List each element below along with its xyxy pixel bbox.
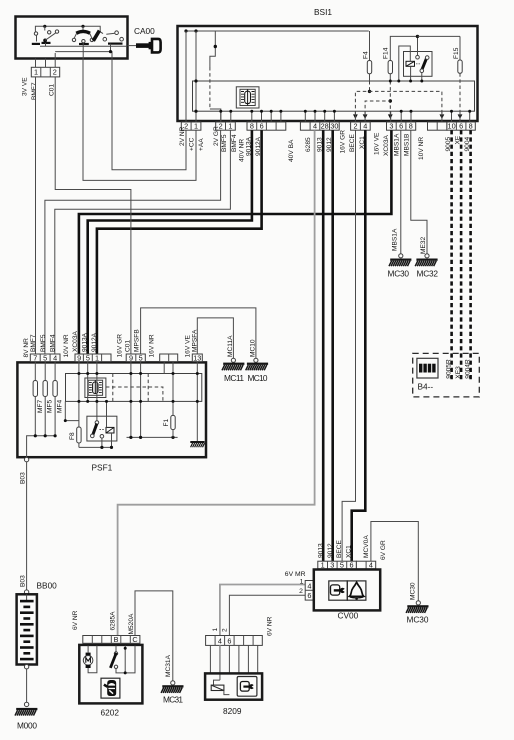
wire XC03A internal: [78, 362, 80, 427]
wire +AA internal: [195, 31, 197, 122]
svg-text:1: 1: [194, 122, 198, 131]
ground MC10: [246, 339, 268, 383]
relay in BSI1: [389, 35, 432, 83]
supply rail: [186, 30, 369, 32]
svg-text:5: 5: [340, 561, 344, 570]
svg-text:1: 1: [34, 68, 38, 77]
junction dot: [34, 434, 37, 437]
ground MC32: [415, 236, 438, 278]
node battery bottom: [24, 665, 28, 669]
wire 6285: [118, 130, 315, 635]
svg-text:MCV0A: MCV0A: [363, 535, 370, 558]
svg-text:F15: F15: [453, 47, 460, 59]
svg-text:MC31A: MC31A: [165, 654, 172, 677]
connector 10V NR: [428, 122, 447, 130]
svg-text:2: 2: [299, 588, 303, 595]
svg-text:13: 13: [193, 353, 201, 362]
connector 2V GR: [216, 122, 236, 131]
svg-text:5: 5: [43, 353, 47, 362]
svg-text:MC11A: MC11A: [227, 335, 234, 357]
svg-text:BECE: BECE: [336, 539, 343, 558]
svg-text:16V GR: 16V GR: [117, 334, 124, 358]
PSF1 top connector 16V VE: [192, 353, 202, 362]
wire +CC internal: [185, 31, 187, 122]
ground MC30 bottom: [406, 605, 429, 624]
svg-text:9004R: 9004R: [464, 359, 471, 379]
junction dot: [54, 434, 57, 437]
svg-text:XC03A: XC03A: [72, 331, 79, 352]
svg-text:1: 1: [228, 122, 232, 131]
svg-text:8: 8: [409, 122, 413, 131]
switch 2 contacts: [72, 26, 93, 58]
bell icon in CV00: [347, 581, 366, 600]
svg-text:MC11: MC11: [224, 373, 244, 383]
svg-text:ME32: ME32: [420, 236, 427, 254]
svg-text:6: 6: [260, 122, 264, 131]
svg-text:+CC: +CC: [188, 137, 195, 151]
wire BMF5: [45, 130, 221, 354]
svg-text:2: 2: [222, 628, 229, 632]
svg-text:9: 9: [129, 353, 133, 362]
svg-text:7: 7: [33, 353, 37, 362]
svg-text:PSF1: PSF1: [92, 463, 113, 473]
svg-text:4: 4: [313, 122, 317, 131]
internal wire H2: [55, 52, 112, 59]
svg-text:10V NR: 10V NR: [63, 334, 70, 357]
arrow blank pin: [440, 114, 445, 119]
ground MC11: [222, 335, 244, 383]
box 6202: [79, 645, 142, 704]
wire XC1: [352, 130, 366, 561]
svg-text:3: 3: [330, 561, 334, 570]
stub F8 feed: [65, 401, 79, 420]
svg-text:C01: C01: [49, 84, 56, 96]
svg-text:BMF5: BMF5: [221, 134, 228, 152]
wire 2 8209 to CV00: [229, 595, 305, 635]
fusebox icon in PSF1: [85, 378, 106, 398]
svg-text:4: 4: [363, 122, 367, 131]
svg-text:F4: F4: [362, 51, 369, 59]
svg-text:1: 1: [95, 353, 99, 362]
svg-text:B03: B03: [20, 575, 27, 587]
svg-text:30: 30: [330, 122, 338, 131]
junction dot: [214, 45, 217, 48]
svg-text:MF7: MF7: [37, 399, 44, 413]
actuator icon in 8209: [211, 680, 229, 695]
svg-text:BMF4: BMF4: [231, 134, 238, 152]
svg-text:6: 6: [349, 561, 353, 570]
connector 40V NR: [247, 122, 286, 131]
junction dot: [368, 90, 371, 93]
svg-text:+AA: +AA: [198, 138, 205, 151]
step wire with junction: [210, 31, 215, 67]
junction dot: [43, 25, 46, 28]
dashed net from F4: [369, 81, 371, 91]
node MC30: [416, 601, 420, 605]
fuse MF5: [43, 362, 54, 436]
inner equipment rect: [66, 374, 202, 402]
svg-text:2V GR: 2V GR: [213, 126, 220, 146]
svg-text:6: 6: [399, 122, 403, 131]
box 8209: [205, 673, 262, 699]
svg-text:6: 6: [459, 122, 463, 131]
switch 1 contacts: [32, 26, 59, 46]
hook to pin: [210, 109, 221, 122]
stubs 8209: [210, 645, 257, 673]
fuse MF4: [53, 362, 64, 436]
coil feed: [106, 401, 108, 427]
stub pin4 gray: [219, 645, 221, 680]
connector icon B4: [417, 358, 438, 378]
svg-text:4: 4: [369, 561, 373, 570]
arrow pin2: [353, 114, 358, 119]
svg-text:C: C: [132, 635, 137, 644]
svg-text:1: 1: [212, 628, 219, 632]
svg-text:M000: M000: [17, 721, 37, 731]
dashed wire F15 to pin6: [459, 73, 461, 114]
stub box to connector mid: [45, 59, 47, 68]
svg-text:6V MR: 6V MR: [285, 571, 306, 578]
svg-text:16V VE: 16V VE: [374, 132, 381, 155]
battery BB00: [17, 594, 37, 664]
left connector CV00: [305, 581, 313, 601]
wire 9012: [331, 130, 334, 561]
relay in PSF1: [87, 416, 117, 441]
switch in 6202: [110, 646, 135, 675]
wire MPSFB internal: [140, 362, 142, 438]
svg-text:MF4: MF4: [57, 399, 64, 413]
svg-text:2: 2: [353, 122, 357, 131]
svg-text:1: 1: [300, 578, 304, 585]
node battery top: [24, 590, 28, 594]
top connector 4 CV00: [356, 561, 375, 570]
connector 6202: [83, 635, 140, 644]
switch box CA00: [16, 17, 128, 59]
wire MBS1B ME32: [411, 130, 427, 254]
wire C01 internal: [130, 362, 132, 438]
svg-text:BSI1: BSI1: [314, 7, 332, 17]
svg-text:CV00: CV00: [338, 611, 359, 621]
node B03 at PSF1: [24, 457, 28, 461]
top bus wire inside CA00: [35, 26, 100, 32]
PSF1 top connector 10V: [75, 353, 111, 362]
fuse F4: [362, 31, 371, 81]
connector 16V GR: [351, 122, 371, 131]
arrow pin4: [363, 114, 368, 119]
svg-text:6V NR: 6V NR: [267, 616, 274, 636]
svg-text:2: 2: [53, 68, 57, 77]
wire 9013: [322, 130, 325, 561]
connector 40V BA: [300, 122, 339, 131]
motor M in 6202: [83, 646, 97, 673]
switch 3 contacts: [93, 31, 123, 52]
svg-text:CA00: CA00: [134, 26, 155, 36]
svg-text:9005R: 9005R: [445, 359, 452, 379]
box CV00: [314, 570, 380, 611]
PSF1 top connector 16V NR: [160, 354, 178, 362]
svg-text:28: 28: [321, 122, 329, 131]
internal ground in PSF1: [190, 441, 204, 447]
fuse F8: [69, 427, 81, 447]
svg-text:9012: 9012: [327, 543, 334, 558]
wire C01: [55, 77, 131, 354]
svg-text:BMF5: BMF5: [40, 334, 47, 352]
svg-text:6V NR: 6V NR: [72, 610, 79, 630]
svg-text:9013: 9013: [317, 543, 324, 558]
wire 9005 dashed: [450, 130, 453, 382]
key icon in CV00: [329, 581, 348, 600]
dashed vertical in PSF1: [112, 374, 114, 402]
svg-text:8209: 8209: [223, 706, 242, 716]
svg-text:MBS1A: MBS1A: [394, 133, 401, 156]
svg-text:BECE: BECE: [349, 133, 356, 152]
svg-text:B4--: B4--: [418, 382, 434, 392]
dashed wire down: [209, 67, 211, 109]
svg-text:4: 4: [218, 637, 222, 646]
wire XC03A: [79, 130, 392, 354]
wire MPSFA internal: [196, 362, 198, 441]
wire to M000: [26, 669, 28, 702]
box BSI1: [178, 26, 478, 121]
svg-text:XE3: XE3: [455, 366, 462, 379]
svg-text:MC32: MC32: [417, 269, 439, 279]
fuse F1: [163, 362, 175, 438]
fuse F14: [383, 36, 418, 81]
connector 8209: [206, 636, 263, 646]
junction dot: [44, 434, 47, 437]
junction dot: [389, 99, 392, 102]
wire M520A to MC31: [135, 591, 173, 681]
svg-text:8: 8: [250, 122, 254, 131]
svg-text:XC1: XC1: [346, 545, 353, 558]
junction dot: [109, 50, 112, 53]
svg-text:6202: 6202: [101, 708, 120, 718]
dashed vertical in PSF1: [147, 374, 149, 402]
stub box to connector pin1: [35, 59, 37, 68]
fuse F15: [453, 36, 462, 73]
PSF1 top connector 8V: [30, 353, 60, 362]
wire MBS1A: [400, 130, 402, 254]
node M000: [24, 702, 28, 706]
wire XE dashed: [460, 130, 463, 382]
arrow pin3: [388, 114, 393, 119]
svg-text:10V NR: 10V NR: [418, 137, 425, 160]
wire B03: [26, 462, 28, 590]
svg-text:1: 1: [321, 561, 325, 570]
svg-text:16V NR: 16V NR: [149, 334, 156, 357]
svg-text:5: 5: [139, 353, 143, 362]
ground M000: [15, 708, 37, 731]
svg-text:MC30: MC30: [388, 269, 410, 279]
svg-text:MC10: MC10: [249, 339, 256, 357]
svg-text:MC10: MC10: [248, 373, 268, 383]
ground MC31: [161, 685, 183, 704]
svg-text:6285A: 6285A: [110, 611, 117, 631]
bus B: [127, 436, 178, 438]
box PSF1: [17, 362, 206, 457]
wire MPSFA to MC11: [197, 318, 233, 358]
svg-text:40V BA: 40V BA: [288, 139, 295, 162]
svg-text:MBS1B: MBS1B: [404, 133, 411, 156]
junction dot: [194, 29, 197, 32]
PSF1 top connector 16V GR: [126, 353, 145, 362]
junction dots on BSI bottom edge: [219, 110, 471, 113]
junction dot: [81, 25, 84, 28]
stub blank pins: [163, 362, 165, 374]
svg-text:16V GR: 16V GR: [340, 130, 347, 154]
wire +AA: [83, 59, 196, 181]
svg-text:MC31: MC31: [163, 695, 183, 705]
box B4 dashed: [413, 353, 480, 397]
dashed to XC1 pin: [365, 101, 390, 115]
connector 9005: [447, 122, 475, 131]
rail to F15: [418, 35, 461, 37]
svg-text:6285: 6285: [305, 137, 312, 152]
wire BECE: [342, 130, 355, 561]
svg-text:BB00: BB00: [37, 581, 58, 591]
svg-text:B03: B03: [20, 472, 27, 484]
svg-text:9012A: 9012A: [91, 332, 98, 352]
svg-text:BMF4: BMF4: [50, 334, 57, 352]
wire 9013A internal: [87, 362, 89, 402]
junction dots: [77, 372, 80, 375]
svg-text:4: 4: [307, 581, 311, 590]
wire +CC: [112, 59, 186, 170]
svg-text:2V NR: 2V NR: [179, 126, 186, 146]
svg-text:MF5: MF5: [47, 399, 54, 413]
junction dot: [184, 29, 187, 32]
connector 16V VE: [387, 122, 416, 131]
inner equipment rect: [193, 81, 475, 111]
svg-text:4: 4: [53, 353, 57, 362]
wire 9013A: [88, 130, 252, 354]
car lock icon in 6202: [101, 678, 120, 698]
svg-text:F14: F14: [383, 47, 390, 59]
stub box to connector pin2: [54, 53, 56, 67]
key icon in 8209: [237, 677, 257, 697]
connector C01: [31, 67, 59, 77]
svg-text:9013A: 9013A: [82, 332, 89, 352]
svg-text:XC03A: XC03A: [383, 135, 390, 156]
svg-text:9: 9: [77, 353, 81, 362]
relay output wires: [101, 438, 103, 447]
wire MPSFB to MC10: [141, 308, 256, 358]
svg-text:F1: F1: [163, 418, 170, 426]
svg-text:BMF7: BMF7: [30, 334, 37, 352]
svg-text:MC30: MC30: [407, 615, 429, 625]
svg-text:B: B: [114, 635, 119, 644]
key symbol: [128, 39, 161, 53]
BSI1 internal pin stubs: [221, 111, 470, 122]
wire 1 gray 8209 to CV00: [220, 585, 305, 636]
dashed branch D1: [355, 91, 442, 114]
junction dot: [194, 79, 197, 82]
svg-text:8: 8: [469, 122, 473, 131]
svg-text:3: 3: [389, 122, 393, 131]
top connector CV00: [318, 561, 357, 570]
svg-text:MPSFB: MPSFB: [134, 329, 141, 352]
dashed branch D2: [389, 81, 391, 115]
ground MC30 mid: [388, 228, 412, 278]
svg-text:MC30: MC30: [409, 582, 416, 600]
junction dot: [194, 110, 197, 113]
svg-text:5: 5: [86, 353, 90, 362]
svg-text:3V VE: 3V VE: [22, 77, 29, 96]
fusebox icon in BSI1: [236, 87, 259, 108]
svg-text:F8: F8: [69, 432, 76, 440]
arrow pin6: [458, 114, 463, 119]
wire MCV0A to MC30: [371, 522, 418, 601]
svg-text:10: 10: [448, 122, 456, 131]
wire 9004 dashed: [469, 130, 472, 382]
internal wire H1 to key: [40, 45, 127, 47]
wire 9012A: [97, 130, 262, 354]
dashed link in PSF1: [106, 387, 163, 401]
svg-text:6: 6: [307, 591, 311, 600]
svg-text:MBS1A: MBS1A: [392, 228, 399, 251]
wire 9012A internal: [96, 362, 98, 421]
node MC31: [171, 681, 175, 685]
svg-text:6: 6: [227, 637, 231, 646]
svg-text:6V GR: 6V GR: [380, 540, 387, 560]
svg-text:C01: C01: [125, 340, 132, 352]
wire BMF7: [35, 77, 37, 354]
svg-text:M520A: M520A: [128, 613, 135, 634]
connector 2V NR: [181, 122, 201, 131]
fuse MF7: [33, 362, 44, 436]
svg-text:BMF7: BMF7: [31, 82, 38, 100]
wire F8 coil bus: [79, 446, 112, 448]
bus A to battery: [27, 436, 55, 457]
wire BMF4: [55, 130, 231, 354]
